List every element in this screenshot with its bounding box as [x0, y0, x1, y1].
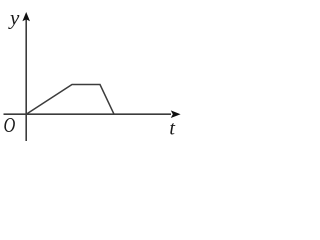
y-axis — [25, 19, 27, 141]
y-axis arrowhead — [22, 12, 30, 21]
t-axis arrowhead — [171, 110, 181, 118]
trapezoid curve — [26, 85, 114, 115]
t-axis — [4, 113, 172, 115]
svg-text:t: t — [169, 117, 175, 139]
svg-text:y: y — [8, 6, 20, 30]
svg-text:O: O — [4, 113, 16, 137]
